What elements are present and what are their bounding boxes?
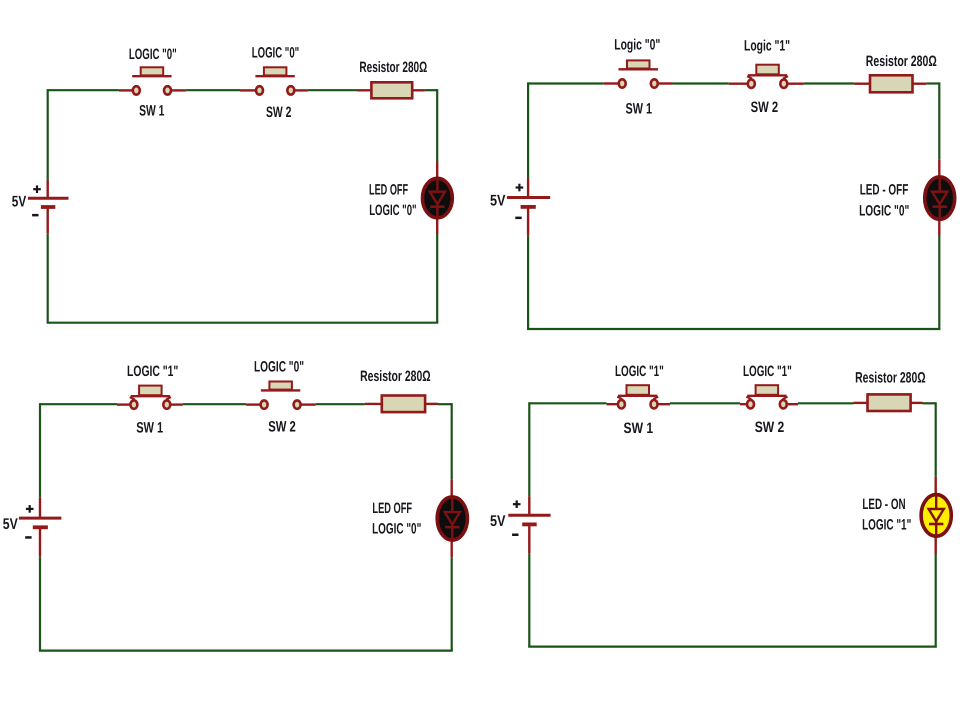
wire TR battery + lead bbox=[527, 179, 529, 198]
wire BL battery - lead bbox=[39, 527, 41, 556]
battery minus sign bbox=[512, 534, 518, 537]
pushbutton switch SW2-TR bbox=[747, 65, 788, 88]
resistor R-BR 280Ω bbox=[868, 394, 911, 411]
svg-text:LED - OFF: LED - OFF bbox=[860, 182, 909, 199]
wire TR SW2 left lead bbox=[729, 82, 748, 84]
wire TL SW2 right lead bbox=[295, 89, 308, 91]
wire TR resistor right lead bbox=[913, 82, 927, 84]
wire TL top segment 1 bbox=[48, 89, 119, 91]
wire BL SW2 left lead bbox=[246, 403, 260, 405]
wire TR battery - lead bbox=[527, 207, 529, 236]
wire BL top segment 3 bbox=[316, 403, 365, 405]
wire BR left upper bbox=[528, 402, 530, 496]
LED D-TR (OFF) bbox=[925, 177, 955, 219]
wire TL LED cathode lead bbox=[436, 219, 438, 234]
wire TL left lower bbox=[47, 234, 49, 323]
wire BL LED cathode lead bbox=[451, 541, 453, 557]
resistor R-TL 280Ω bbox=[371, 82, 412, 98]
pushbutton switch SW1-TL bbox=[132, 67, 171, 94]
wire TR LED anode lead bbox=[938, 160, 940, 176]
wire BR right upper bbox=[935, 402, 937, 477]
wire BR top segment 3 bbox=[798, 402, 854, 404]
svg-text:LOGIC "0": LOGIC "0" bbox=[369, 202, 416, 219]
wire BL SW1 left lead bbox=[117, 403, 130, 405]
wire BL bottom bbox=[39, 649, 453, 651]
wire BL top segment 2 bbox=[183, 403, 246, 405]
resistor R-TR 280Ω bbox=[870, 75, 913, 92]
wire BR top segment 4 bbox=[923, 402, 936, 404]
wire TR left upper bbox=[527, 82, 529, 178]
svg-text:LOGIC "0": LOGIC "0" bbox=[129, 46, 177, 63]
wire TR SW2 right lead bbox=[787, 82, 804, 84]
svg-text:5V: 5V bbox=[12, 193, 27, 210]
pushbutton switch SW1-BR bbox=[617, 385, 658, 408]
wire TL battery - lead bbox=[47, 207, 49, 234]
svg-text:SW 2: SW 2 bbox=[266, 104, 291, 121]
pushbutton switch SW2-BL bbox=[261, 382, 301, 409]
wire BR top segment 1 bbox=[529, 402, 606, 404]
svg-text:LED OFF: LED OFF bbox=[369, 182, 408, 199]
wire TL LED anode lead bbox=[436, 162, 438, 178]
svg-text:5V: 5V bbox=[490, 193, 506, 210]
wire TR bottom bbox=[527, 328, 940, 330]
svg-text:SW 1: SW 1 bbox=[626, 100, 653, 117]
wire BR bottom bbox=[528, 645, 937, 647]
wire TL resistor left lead bbox=[358, 89, 372, 91]
wire BL top segment 4 bbox=[438, 403, 452, 405]
wire TL right lower bbox=[436, 234, 438, 323]
svg-text:LED - ON: LED - ON bbox=[862, 496, 905, 513]
wire TR right upper bbox=[938, 82, 940, 159]
pushbutton switch SW2-BR bbox=[746, 385, 787, 408]
wire TR left lower bbox=[527, 236, 529, 329]
wire BL left lower bbox=[39, 557, 41, 651]
battery BT-BL 5V cell bbox=[19, 518, 62, 527]
svg-text:SW 1: SW 1 bbox=[624, 420, 654, 437]
wire BL right lower bbox=[451, 557, 453, 651]
wire BL resistor left lead bbox=[365, 403, 382, 405]
wire BR resistor left lead bbox=[854, 402, 868, 404]
wire BL left upper bbox=[39, 403, 41, 498]
svg-text:LOGIC "1": LOGIC "1" bbox=[743, 363, 792, 380]
wire BR battery - lead bbox=[528, 524, 530, 553]
svg-text:5V: 5V bbox=[3, 516, 19, 533]
wire BL resistor right lead bbox=[425, 403, 438, 405]
wire BR top segment 2 bbox=[670, 402, 740, 404]
svg-text:LOGIC "0": LOGIC "0" bbox=[252, 44, 299, 61]
pushbutton switch SW1-TR bbox=[619, 60, 659, 87]
svg-text:SW 1: SW 1 bbox=[136, 419, 163, 436]
wire BL battery + lead bbox=[39, 498, 41, 518]
battery plus sign bbox=[516, 184, 524, 192]
wire TR top segment 1 bbox=[528, 82, 604, 84]
wire BL SW2 right lead bbox=[301, 403, 316, 405]
wire TL bottom bbox=[47, 322, 439, 324]
wire TL SW1 left lead bbox=[119, 89, 133, 91]
wire TR resistor left lead bbox=[854, 82, 870, 84]
wire TR top segment 4 bbox=[926, 82, 939, 84]
svg-text:Resistor 280Ω: Resistor 280Ω bbox=[359, 59, 427, 76]
LED D-BR (ON) bbox=[921, 495, 951, 537]
LED D-TL (OFF) bbox=[423, 178, 453, 218]
wire TR LED cathode lead bbox=[938, 220, 940, 235]
wire BR LED anode lead bbox=[935, 477, 937, 494]
svg-text:Resistor 280Ω: Resistor 280Ω bbox=[866, 53, 937, 70]
LED D-BL (OFF) bbox=[437, 497, 467, 540]
wire TR top segment 2 bbox=[673, 82, 729, 84]
battery minus sign bbox=[32, 214, 38, 217]
wire TL right upper bbox=[436, 89, 438, 161]
wire BR SW1 left lead bbox=[607, 403, 618, 405]
svg-text:LOGIC "1": LOGIC "1" bbox=[615, 363, 664, 380]
wire BR SW1 right lead bbox=[658, 403, 670, 405]
pushbutton switch SW1-BL bbox=[130, 386, 171, 409]
wire TR SW1 left lead bbox=[604, 82, 619, 84]
wire BR SW2 left lead bbox=[740, 403, 747, 405]
wire BL SW1 right lead bbox=[170, 403, 182, 405]
wire BL right upper bbox=[451, 403, 453, 480]
wire BR resistor right lead bbox=[911, 402, 923, 404]
svg-text:SW 2: SW 2 bbox=[268, 418, 296, 435]
svg-text:Resistor 280Ω: Resistor 280Ω bbox=[360, 368, 431, 385]
pushbutton switch SW2-TL bbox=[255, 67, 294, 94]
svg-text:Logic "1": Logic "1" bbox=[744, 37, 790, 54]
battery plus sign bbox=[513, 500, 521, 508]
svg-text:Resistor 280Ω: Resistor 280Ω bbox=[855, 369, 926, 386]
wire BR battery + lead bbox=[528, 496, 530, 515]
svg-text:LED OFF: LED OFF bbox=[372, 500, 412, 517]
wire TR right lower bbox=[938, 236, 940, 330]
svg-text:LOGIC "0": LOGIC "0" bbox=[254, 358, 304, 375]
battery BT-TL 5V cell bbox=[28, 198, 69, 207]
wire TL battery + lead bbox=[47, 179, 49, 198]
svg-text:LOGIC "0": LOGIC "0" bbox=[372, 521, 421, 538]
wire BL top segment 1 bbox=[40, 403, 117, 405]
wire TR top segment 3 bbox=[804, 82, 855, 84]
wire BR SW2 right lead bbox=[787, 403, 798, 405]
resistor R-BL 280Ω bbox=[382, 396, 425, 413]
svg-text:SW 2: SW 2 bbox=[751, 99, 779, 116]
battery BT-BR 5V cell bbox=[508, 515, 550, 524]
svg-text:SW 2: SW 2 bbox=[755, 419, 785, 436]
wire BR right lower bbox=[935, 554, 937, 647]
svg-text:LOGIC "0": LOGIC "0" bbox=[859, 202, 909, 219]
svg-text:LOGIC "1": LOGIC "1" bbox=[127, 363, 178, 380]
svg-text:LOGIC "1": LOGIC "1" bbox=[862, 517, 911, 534]
battery plus sign bbox=[26, 505, 34, 513]
wire BR left lower bbox=[528, 553, 530, 646]
svg-text:SW 1: SW 1 bbox=[139, 103, 164, 120]
battery plus sign bbox=[33, 185, 41, 193]
battery minus sign bbox=[25, 536, 31, 539]
battery minus sign bbox=[515, 217, 521, 220]
wire BL LED anode lead bbox=[451, 480, 453, 496]
battery BT-TR 5V cell bbox=[507, 198, 550, 207]
svg-text:5V: 5V bbox=[490, 513, 506, 530]
wire TL resistor right lead bbox=[412, 89, 424, 91]
wire TL top segment 4 bbox=[425, 89, 438, 91]
wire TL top segment 3 bbox=[308, 89, 358, 91]
wire TL SW1 right lead bbox=[171, 89, 185, 91]
wire TL left upper bbox=[47, 89, 49, 179]
svg-text:Logic "0": Logic "0" bbox=[614, 36, 660, 53]
wire BR LED cathode lead bbox=[935, 537, 937, 554]
wire TL top segment 2 bbox=[186, 89, 240, 91]
wire TR SW1 right lead bbox=[658, 82, 673, 84]
wire TL SW2 left lead bbox=[240, 89, 256, 91]
